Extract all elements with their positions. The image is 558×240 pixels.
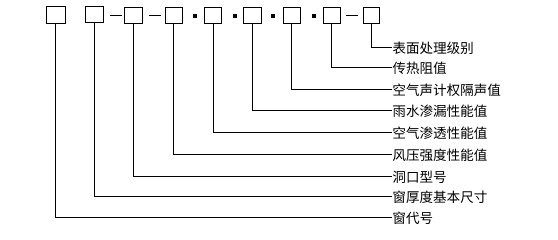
wire from box 8 to label "传热阻值": [332, 24, 393, 68]
wire from box 7 to label "空气声计权隔声值": [292, 24, 393, 90]
designation box 8: [324, 8, 341, 24]
label text 传热阻值: [393, 62, 446, 75]
label text 雨水渗漏性能值: [393, 105, 487, 118]
wire from box 5 to label "空气渗透性能值": [214, 24, 393, 133]
label text 空气声计权隔声值: [393, 84, 500, 97]
designation box 5: [205, 8, 222, 24]
wire from box 4 to label "风压强度性能值": [174, 24, 393, 155]
designation box 2: [86, 7, 104, 23]
separator dash 2: [149, 15, 161, 16]
wire from box 1 to label "窗代号": [56, 24, 393, 218]
separator dot 4: [312, 14, 316, 18]
separator dot 1: [193, 14, 197, 18]
designation box 4: [166, 8, 183, 24]
separator dot 2: [233, 14, 237, 18]
designation box 6: [244, 8, 262, 24]
designation box 7: [284, 8, 301, 24]
separator dash 3: [346, 15, 358, 16]
designation box 1: [47, 7, 66, 24]
label text 窗厚度基本尺寸: [393, 191, 486, 204]
label text 空气渗透性能值: [393, 127, 486, 140]
label text 窗代号: [393, 212, 432, 225]
wire from box 3 to label "洞口型号": [134, 24, 393, 177]
wire from box 2 to label "窗厚度基本尺寸": [95, 23, 393, 197]
wire from box 9 to label "表面处理级别": [372, 24, 393, 48]
separator dash 1: [110, 15, 122, 16]
label text 洞口型号: [393, 171, 446, 183]
label text 表面处理级别: [393, 42, 473, 55]
designation box 3: [125, 8, 143, 24]
label text 风压强度性能值: [393, 149, 487, 162]
separator dot 3: [271, 14, 275, 18]
wire from box 6 to label "雨水渗漏性能值": [253, 24, 393, 111]
designation box 9: [364, 8, 380, 24]
